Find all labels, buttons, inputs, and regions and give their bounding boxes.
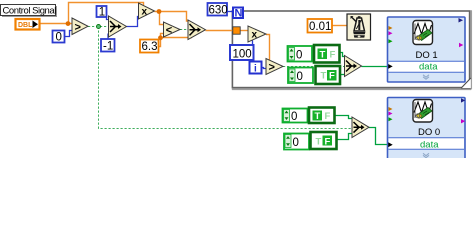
svg-text:>: > — [75, 21, 81, 33]
svg-text:-1: -1 — [103, 41, 113, 53]
svg-text:0: 0 — [293, 137, 299, 149]
svg-text:100: 100 — [233, 48, 252, 60]
svg-text:x: x — [252, 30, 258, 41]
svg-text:0: 0 — [56, 32, 62, 44]
svg-text:630: 630 — [209, 4, 228, 16]
svg-text:T: T — [320, 49, 326, 60]
svg-text:>: > — [269, 61, 275, 73]
svg-text:F: F — [325, 136, 331, 147]
svg-text:DO 1: DO 1 — [416, 50, 438, 61]
svg-text:F: F — [325, 111, 331, 122]
svg-text:i: i — [254, 63, 257, 74]
svg-text:data: data — [420, 140, 439, 151]
svg-text:DBL: DBL — [18, 22, 33, 29]
svg-text:T: T — [315, 111, 321, 122]
svg-text:F: F — [330, 49, 336, 60]
svg-text:Control Signal: Control Signal — [3, 6, 57, 17]
svg-text:0: 0 — [291, 111, 297, 123]
svg-text:N: N — [235, 8, 243, 20]
svg-text:1: 1 — [99, 7, 105, 19]
svg-text:x: x — [142, 7, 148, 18]
svg-text:0: 0 — [296, 49, 302, 61]
svg-text:6.3: 6.3 — [142, 41, 158, 53]
svg-text:0.01: 0.01 — [309, 21, 331, 33]
svg-text:data: data — [419, 62, 438, 73]
svg-text:T: T — [316, 136, 322, 147]
svg-text:0: 0 — [297, 71, 303, 83]
svg-text:DO 0: DO 0 — [418, 127, 440, 138]
svg-text:T: T — [321, 71, 327, 82]
svg-text:<: < — [166, 24, 172, 36]
svg-text:F: F — [329, 71, 335, 82]
